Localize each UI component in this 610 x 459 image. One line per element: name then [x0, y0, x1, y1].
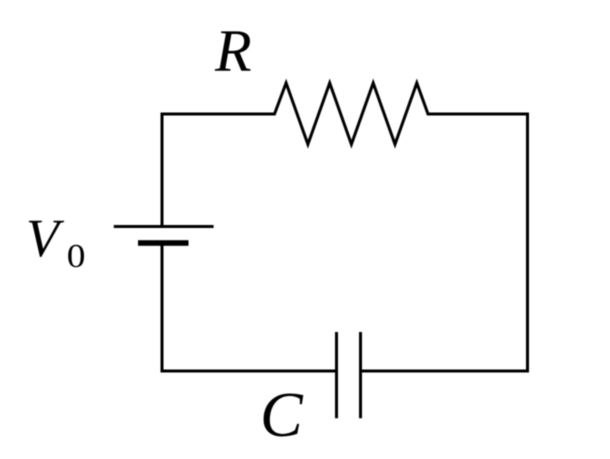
svg-text:R: R [214, 18, 252, 84]
svg-text:C: C [260, 379, 304, 450]
svg-text:0: 0 [67, 237, 86, 275]
svg-text:V: V [26, 208, 65, 268]
